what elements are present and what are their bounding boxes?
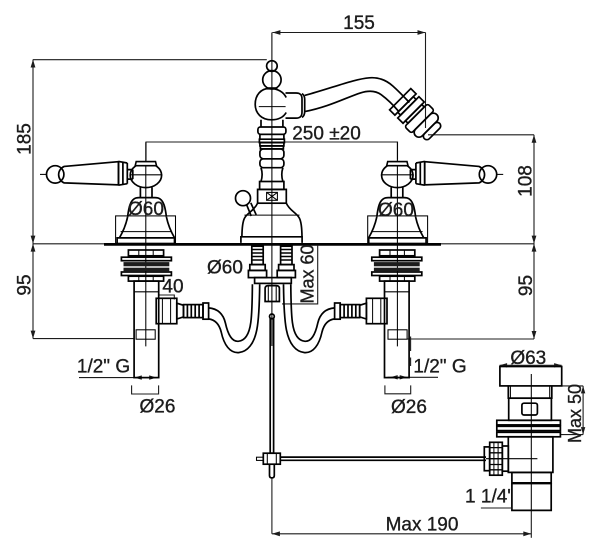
horizontal drain rod [280,457,486,460]
drain tailpiece [512,483,551,510]
column finial small ball [267,61,278,72]
column ball junction line [266,87,277,89]
svg-text:Max 190: Max 190 [386,515,459,536]
left hose hex nut [156,298,177,323]
left shank thread box [136,330,155,339]
spout tube lower edge [305,91,399,111]
dimension 108 top extension line [428,134,534,136]
column flare ring [258,127,286,134]
spout nozzle [389,88,446,145]
pop-up rod clamp left stub [257,457,264,460]
drain washer plate 2 [497,426,561,430]
left hose taper washer [177,303,184,319]
column ring stack [259,134,284,146]
Max 60 bracket [282,246,318,304]
left valve block [248,270,266,277]
left handle base mid line [121,231,172,233]
svg-text:95: 95 [516,275,537,296]
drain overflow window [522,403,538,415]
dimension 155 line [272,32,425,34]
column bell base [242,203,302,237]
column set-screw square [267,192,278,200]
deck countertop line [104,243,441,246]
SPOUT [286,78,446,145]
left shank dark band 1 [124,262,170,266]
left handle top cap [135,162,156,166]
left shank washer lower [121,272,171,276]
svg-text:Ø60: Ø60 [128,199,164,220]
pop-up rod lower tip [270,464,275,478]
Max 50 top extension [562,385,583,387]
left shank joint line [134,291,159,293]
column bell mid line [244,214,299,216]
svg-text:155: 155 [343,13,375,34]
left stud nut [250,265,265,271]
column barrel ring 2 [260,159,284,168]
left handle base outline box [116,216,176,243]
column waist [261,168,283,182]
left shank washer upper [121,257,171,261]
drain knurled nut [490,442,503,475]
column main body [255,88,286,119]
COLUMN [236,33,303,347]
column thin ring [260,146,283,149]
column escutcheon block [258,189,287,203]
dimension 155 right extension line [425,33,427,129]
right shank broken extension line [410,337,412,367]
dimension 95 right line [533,244,535,339]
left handle base rim [117,238,174,243]
left handle lever collar rings [119,161,128,185]
left handle valve ball [130,163,161,188]
Ø26 left bracket [132,385,159,394]
left shank tube [134,281,159,378]
drain nut collar [502,446,508,471]
svg-text:Ø26: Ø26 [140,397,176,418]
drain flange [500,367,562,386]
dimension 108 line [533,135,535,244]
drain tailpiece top [512,472,551,483]
left handle ball centerline tick [130,174,163,176]
1/2 G left underline and Ø26 dim line [79,377,157,379]
svg-text:40: 40 [162,277,183,298]
spout collar [286,93,303,118]
40 leader mark [159,295,175,300]
Ø63 dimension line [500,364,562,366]
drain washer plate 1 [497,420,561,425]
column bell rim [241,237,302,243]
dimension 185 line [32,60,34,244]
dimension 185 top extension line [33,59,267,61]
column finial medium ball [263,71,281,89]
left handle centerline [145,142,147,346]
column neck [261,120,283,127]
left handle base flare [119,217,174,238]
column collar [260,182,284,190]
left handle lever body [59,162,119,185]
left handle stem [140,187,152,197]
drain knurled nut end plate [484,447,489,471]
left handle lever neck [127,170,133,180]
pop-up knob stem [247,203,257,216]
svg-text:1/2" G: 1/2" G [77,357,130,378]
pop-up rod ball [270,314,275,319]
left shank hex nut upper [128,250,163,256]
drain tailpiece joint line [512,482,551,484]
right threaded stud [281,246,292,264]
connecting plate [255,278,292,284]
drain lower body [508,437,553,473]
1/2 G right underline and Ø26 dim line [388,376,439,378]
column centerline [271,33,273,347]
svg-text:185: 185 [15,123,36,155]
svg-text:Ø63: Ø63 [510,348,546,369]
dimension 95 left line [32,244,34,339]
right handle assembly (mirror of left) [284,142,504,377]
deck thin extension left [33,243,104,245]
drain neck [508,386,552,398]
spout tube upper edge [305,78,410,103]
pop-up rod vertical [270,319,273,454]
Ø26 right bracket [385,385,411,393]
column body centerline tick [259,106,286,108]
left hose collar [203,303,209,319]
Max 50 dimension line [582,386,584,435]
svg-text:1/2" G: 1/2" G [413,357,466,378]
BELOWDECK [248,246,486,478]
svg-text:Max 50: Max 50 [565,384,585,443]
svg-text:95: 95 [15,274,36,295]
drain internal rod line [486,458,537,460]
center outlet nut [265,286,279,302]
Max 50 bottom extension [560,434,583,436]
drain upper body [509,398,552,420]
left handle tip centerline tick [40,173,46,175]
svg-text:Ø60: Ø60 [207,258,243,279]
dimension 250±20 bracket line [146,142,398,161]
DRAIN [481,367,562,511]
svg-text:Ø26: Ø26 [391,397,427,418]
LEFTASSY [40,142,260,377]
svg-text:Ø60: Ø60 [378,200,414,221]
drain centerline [530,374,532,511]
svg-text:250 ±20: 250 ±20 [292,124,361,145]
right stud nut [279,265,294,271]
Max 190 left extension (pop-up rod centerline) [271,478,273,534]
dimension 95 left bottom extension line [33,338,134,340]
1 1/4 leader line [481,507,512,509]
left handle lever tip ball [47,166,64,183]
pop-up rod clamp [263,453,280,464]
left hose flexible tube [209,284,253,341]
left handle dome bonnet [128,198,167,217]
svg-text:1 1/4': 1 1/4' [465,487,511,508]
left threaded stud [252,246,263,264]
spout collar rings [302,94,305,118]
dimension 95 right bottom extension line [408,338,535,340]
drain washer plate 3 [497,432,561,437]
right valve block [277,270,295,277]
Max 190 dimension line [272,533,531,535]
Max 190 right extension (drain centerline) [530,511,532,538]
left hose corrugation [184,305,204,318]
svg-text:Max 60: Max 60 [298,244,318,303]
deck thin extension right [441,243,534,245]
column barrel ring 1 [260,149,284,159]
left shank hex nut lower [128,276,163,281]
pop-up knob ball [236,191,251,206]
left shank dark band 2 [124,268,170,272]
svg-text:108: 108 [516,165,537,197]
